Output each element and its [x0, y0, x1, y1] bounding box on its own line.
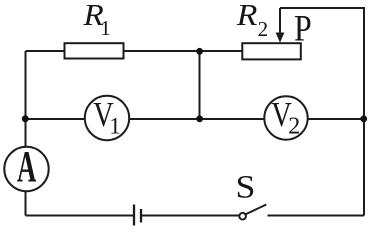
- svg-text:2: 2: [288, 114, 300, 140]
- svg-text:2: 2: [258, 17, 269, 41]
- svg-text:1: 1: [100, 16, 111, 40]
- svg-text:P: P: [294, 7, 312, 49]
- svg-text:R: R: [236, 0, 258, 32]
- svg-text:1: 1: [109, 113, 121, 138]
- svg-text:A: A: [17, 141, 37, 191]
- svg-text:S: S: [236, 170, 256, 205]
